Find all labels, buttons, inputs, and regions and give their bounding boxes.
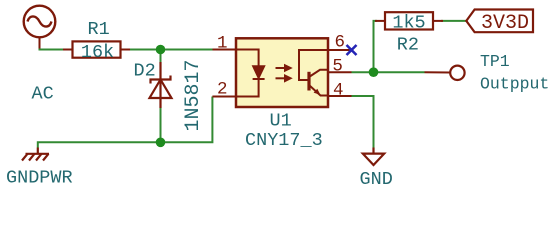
3V3D global power label <box>466 10 533 36</box>
internal LED bracket <box>236 50 265 97</box>
GNDPWR chassis ground symbol <box>22 148 49 161</box>
svg-text:R2: R2 <box>397 35 419 56</box>
test point TP1 <box>425 66 465 80</box>
AC source V1 <box>24 6 56 38</box>
wire <box>160 50 162 63</box>
svg-text:GND: GND <box>360 169 393 190</box>
svg-text:16k: 16k <box>81 42 114 63</box>
phototransistor <box>299 50 328 96</box>
wire <box>441 20 466 22</box>
svg-text:U1: U1 <box>270 111 292 132</box>
wire <box>121 49 213 51</box>
svg-text:CNY17_3: CNY17_3 <box>245 130 323 151</box>
pin 6 stub <box>328 49 352 51</box>
junction node R2/U1 pin5/TP1 <box>369 67 379 77</box>
wire <box>352 71 425 73</box>
pin 1 stub <box>213 49 237 51</box>
GND power symbol <box>363 148 384 166</box>
resistor R2 <box>375 12 443 29</box>
AC source pin stub <box>39 38 41 49</box>
svg-text:TP1: TP1 <box>480 52 510 71</box>
svg-text:GNDPWR: GNDPWR <box>6 168 73 189</box>
junction node R1/D2/U1 <box>156 45 166 55</box>
anode triangle <box>150 80 172 99</box>
light arrows <box>276 65 291 81</box>
svg-text:1k5: 1k5 <box>392 13 425 34</box>
svg-text:6: 6 <box>335 33 346 53</box>
svg-text:1N5817: 1N5817 <box>182 59 205 131</box>
svg-text:1: 1 <box>217 34 228 54</box>
wire <box>352 96 374 148</box>
optocoupler U1 <box>212 38 351 107</box>
svg-text:2: 2 <box>217 80 228 100</box>
no-connect X on pin 6 <box>347 45 357 55</box>
svg-text:Outpput: Outpput <box>480 75 549 94</box>
wire <box>40 48 73 50</box>
wire <box>38 97 213 148</box>
LED triangle pointing down <box>253 66 264 78</box>
wire <box>160 108 162 142</box>
diode D2 (schottky, vertical) <box>150 62 172 108</box>
junction node D2/GNDPWR <box>156 138 166 148</box>
svg-text:4: 4 <box>333 81 344 101</box>
svg-text:D2: D2 <box>134 61 156 82</box>
pin 5 stub <box>328 71 352 73</box>
body rectangle <box>236 38 328 107</box>
wire <box>374 21 378 72</box>
svg-text:3V3D: 3V3D <box>481 12 529 35</box>
resistor R1 <box>63 41 130 57</box>
pin 2 stub <box>212 96 236 98</box>
svg-text:R1: R1 <box>88 19 110 40</box>
svg-text:AC: AC <box>32 83 54 104</box>
svg-text:5: 5 <box>332 57 343 77</box>
schottky cathode bar <box>151 76 171 84</box>
pin 4 stub <box>328 95 352 97</box>
